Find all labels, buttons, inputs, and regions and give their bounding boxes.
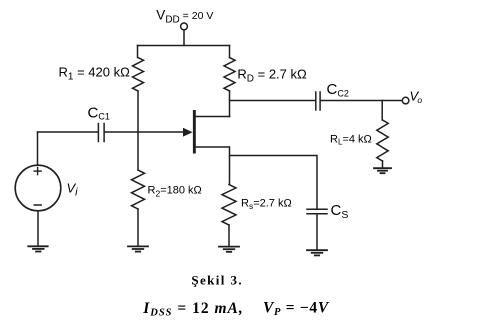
wire R2 bottom lead (137, 209, 139, 246)
wire drain lead (196, 116, 230, 118)
wire RL bottom lead (382, 161, 384, 168)
wire Vi top lead (37, 132, 39, 165)
wire top rail (138, 45, 230, 47)
wire CS bottom lead (316, 214, 318, 249)
wire Vi bottom lead (37, 211, 39, 246)
wire source node to CS (230, 156, 318, 209)
resistor R1 (133, 58, 144, 92)
capacitor CS (307, 209, 327, 213)
Vi minus sign (34, 204, 41, 206)
resistor RS (222, 185, 236, 226)
resistor RD (224, 58, 235, 92)
ground (under CS) (307, 250, 327, 255)
wire input line (Vi to CC1) (38, 131, 98, 133)
ground (under RL) (374, 168, 391, 173)
Vi plus sign (34, 168, 41, 175)
wire RL top lead (381, 101, 383, 121)
wire R1 bottom to R2 top (137, 91, 139, 170)
resistor RL (377, 120, 388, 161)
wire RS bottom lead (228, 225, 230, 246)
wire drain node to CC2 (230, 100, 315, 102)
wire RD bottom to drain (229, 91, 231, 117)
resistor R2 (132, 170, 145, 209)
VDD terminal (181, 23, 188, 46)
svg-text:RL=4 kΩ: RL=4 kΩ (330, 134, 372, 147)
ground (under R2) (128, 246, 148, 251)
wire CC1 to gate with arrow (105, 128, 193, 137)
node Vo terminal (402, 97, 409, 104)
svg-text:Rs=2.7 kΩ: Rs=2.7 kΩ (241, 197, 292, 211)
svg-text:Şekil 3.: Şekil 3. (191, 273, 243, 288)
ground (under RS) (219, 247, 239, 252)
svg-text:VP = −4V: VP = −4V (263, 299, 330, 318)
source Vi circle (15, 165, 61, 211)
wire R1 top lead (137, 46, 139, 58)
capacitor CC2 (316, 92, 320, 110)
wire source lead (196, 147, 230, 185)
capacitor CC1 (98, 124, 104, 142)
transistor JFET channel bar (193, 110, 196, 154)
wire RD top lead (229, 46, 231, 58)
ground (under Vi) (28, 246, 47, 251)
wire CC2 to output terminal (321, 100, 402, 102)
